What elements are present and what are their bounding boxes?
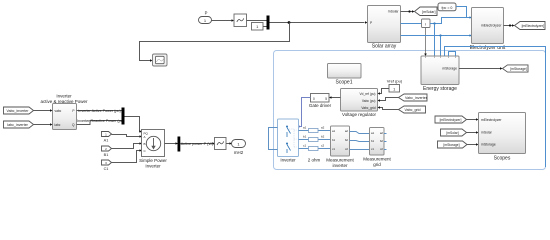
current source circle [146,136,160,150]
from Iabc_inverter (left) [4,121,34,128]
node on dc bus 2 [439,34,441,36]
svg-text:mH2: mH2 [234,150,244,155]
svg-text:5: 5 [325,97,327,101]
wire i to electrolyzer [430,18,470,24]
svg-text:Inverter: Inverter [56,94,72,99]
svg-text:<Active power P (W)>: <Active power P (W)> [179,142,217,146]
svg-text:mElectrolyzer: mElectrolyzer [481,24,502,28]
svg-text:Vabc (pu): Vabc (pu) [362,99,376,103]
wires measurement inverter to grid [350,132,370,134]
svg-text:Scopes: Scopes [494,156,511,162]
goto mSolar [415,7,438,16]
svg-text:c1: c1 [303,144,307,148]
wire electrolyzer to goto [504,25,513,27]
mux [267,16,270,30]
svg-text:c1: c1 [371,147,374,151]
svg-text:[mElectrolyzer]: [mElectrolyzer] [440,118,462,122]
svg-text:[mElectrolyzer]: [mElectrolyzer] [522,24,544,28]
svg-text:Voltage regulator: Voltage regulator [342,112,377,117]
inport 1 (P) [199,17,212,24]
inverter block (blue) [278,119,299,157]
svg-text:b2: b2 [321,135,325,139]
wire inverter to demux [165,143,178,145]
demux bar [178,137,181,152]
svg-text:c2: c2 [345,147,348,151]
wire to scopes 3 [467,144,476,146]
svg-text:Inverter: Inverter [145,164,161,169]
voltage regulator block [341,89,378,112]
from tag B1 [102,146,112,151]
scopes block [479,113,526,154]
outport mH2 [232,140,246,148]
svg-text:[mSolar]: [mSolar] [422,10,435,14]
svg-text:Scope1: Scope1 [336,80,353,86]
svg-text:mSolar: mSolar [388,9,400,13]
svg-text:fpc = 0: fpc = 0 [442,6,453,10]
svg-text:mSolar: mSolar [481,130,493,134]
wire solar out2 (blue dc bus bottom) [401,35,470,37]
svg-text:A: A [144,135,146,139]
measurement inverter block [331,126,350,156]
svg-text:Inverter Reactive Power (pu): Inverter Reactive Power (pu) [77,119,124,123]
svg-text:Inverter Active Power (pu): Inverter Active Power (pu) [78,109,120,113]
svg-text:iabc: iabc [55,123,61,127]
svg-text:vabc: vabc [55,109,62,113]
svg-text:P: P [205,11,208,16]
wire solar to goto mSolar [401,11,413,13]
svg-text:P: P [72,109,74,113]
simple power inverter block [142,130,165,157]
svg-text:inverter: inverter [332,163,348,168]
subsystem area frame (AC grid model) [274,51,546,170]
svg-text:C1: C1 [104,167,109,171]
svg-text:[mStorage]: [mStorage] [443,143,459,147]
inverter P/Q measurement block [53,104,77,130]
svg-text:Solar array: Solar array [372,44,397,50]
svg-text:Energy storage: Energy storage [423,86,457,92]
storage top port loop wire [449,52,456,57]
svg-text:c2: c2 [380,147,383,151]
mux2 [122,108,125,125]
measurement grid block [370,128,385,156]
svg-text:Electrolyzer unit: Electrolyzer unit [470,45,506,51]
svg-text:b1: b1 [332,138,336,142]
wire Q to mux2 [77,121,122,125]
inverter switch symbols [286,126,288,128]
wire sensor output to storage port1 [425,28,427,54]
solar array block [368,6,401,43]
goto mStorage [503,65,529,72]
wire Vabc_grid to regulator [380,108,399,110]
wire to vabc [34,110,51,112]
svg-text:B1: B1 [104,153,109,157]
svg-text:b1: b1 [371,139,375,143]
svg-text:Vref (pu): Vref (pu) [387,79,403,84]
svg-text:Vabc_inverter: Vabc_inverter [405,96,428,100]
rate limiter block [234,14,247,27]
svg-text:a2: a2 [380,131,384,135]
from mSolar tag [441,129,467,136]
node junction [288,21,291,24]
electrolyzer unit block [472,8,504,44]
node on dc bus [433,22,435,24]
wire Vabc_inverter to regulator [380,98,399,101]
svg-text:Gate driver: Gate driver [309,103,332,108]
wire constant to mux [263,26,267,28]
goto mElectrolyzer [515,22,546,30]
current sensor i [422,19,431,28]
svg-text:mElectrolyzer: mElectrolyzer [481,118,502,122]
from tag A1 [102,132,112,137]
wire vref to regulator [380,89,389,94]
wire branch to storage port2 [434,24,436,57]
energy storage block [421,56,459,85]
scope1 block [328,64,362,79]
svg-text:b1: b1 [303,135,307,139]
wire mux to solar array [270,22,365,24]
wire A1 [112,135,140,137]
wire solar out1 (blue dc bus top) [401,23,422,25]
svg-text:Vd_ref (pu): Vd_ref (pu) [360,92,376,96]
constant block [252,23,264,31]
from Vabc_inverter (left) [4,107,34,114]
wire to scopes 1 [467,119,477,121]
svg-text:Vabc_grid: Vabc_grid [361,106,375,110]
wire branch to storage port3 [440,36,442,57]
wire C1 [112,151,140,163]
svg-text:Measurement: Measurement [363,157,391,162]
grid right stubs [384,134,387,150]
svg-text:a2: a2 [345,129,349,133]
svg-text:Simple Power: Simple Power [139,158,167,163]
svg-text:Vabc_inverter: Vabc_inverter [7,109,30,113]
wire gate driver to inverter gate [299,98,311,127]
three phase row c [299,148,331,150]
svg-text:mStorage: mStorage [442,67,457,71]
svg-text:P: P [370,21,372,25]
three phase row b [299,139,331,141]
wire junction to scope [140,23,290,61]
wire rate block to mux [247,20,267,22]
wire demux to mean block [180,143,212,145]
from Vabc_inverter tag [399,94,428,101]
svg-text:b2: b2 [380,139,384,143]
wire inport to rate block [212,20,233,22]
svg-text:B: B [144,142,146,146]
svg-text:b2: b2 [345,138,349,142]
wire to iabc [34,124,51,126]
scope block [153,54,168,66]
wire mean to outport [226,143,230,145]
gate driver block [311,94,330,103]
svg-text:Inverter: Inverter [280,158,296,163]
svg-text:a1: a1 [332,129,336,133]
svg-text:a1: a1 [371,131,375,135]
from Vabc_grid tag [399,106,426,113]
long dc wire to frame right [445,47,546,168]
svg-text:[mSolar]: [mSolar] [446,131,458,135]
from mStorage tag [438,141,468,148]
from mElectrolyzer tag [435,116,467,123]
svg-text:[mStorage]: [mStorage] [510,67,527,71]
svg-text:i: i [425,22,426,27]
constant fpc block [438,3,456,11]
svg-text:A1: A1 [104,139,109,143]
wire B1 [112,144,140,149]
mean block [215,138,227,150]
svg-text:Iabc_inverter: Iabc_inverter [7,123,29,127]
wire P to mux2 [77,110,122,112]
three phase row a [299,130,331,132]
wire to scopes 2 [467,132,477,134]
svg-text:a2: a2 [321,126,325,130]
svg-text:Vabc_grid: Vabc_grid [405,108,421,112]
svg-text:0: 0 [313,97,315,101]
wire mux2 to PQ port [125,117,141,132]
inverter dc side wire [269,128,278,150]
svg-text:Measurement: Measurement [326,158,354,163]
svg-text:a1: a1 [303,126,307,130]
wire fpc to electrolyzer bus [456,7,467,18]
wire regulator output to gate driver [332,97,341,99]
from tag C1 [102,160,112,165]
svg-text:c2: c2 [321,144,325,148]
svg-text:c1: c1 [332,147,335,151]
svg-text:2 ohm: 2 ohm [308,158,321,163]
svg-text:mStorage: mStorage [481,142,496,146]
svg-text:grid: grid [373,162,381,167]
wire storage to goto [459,68,500,70]
